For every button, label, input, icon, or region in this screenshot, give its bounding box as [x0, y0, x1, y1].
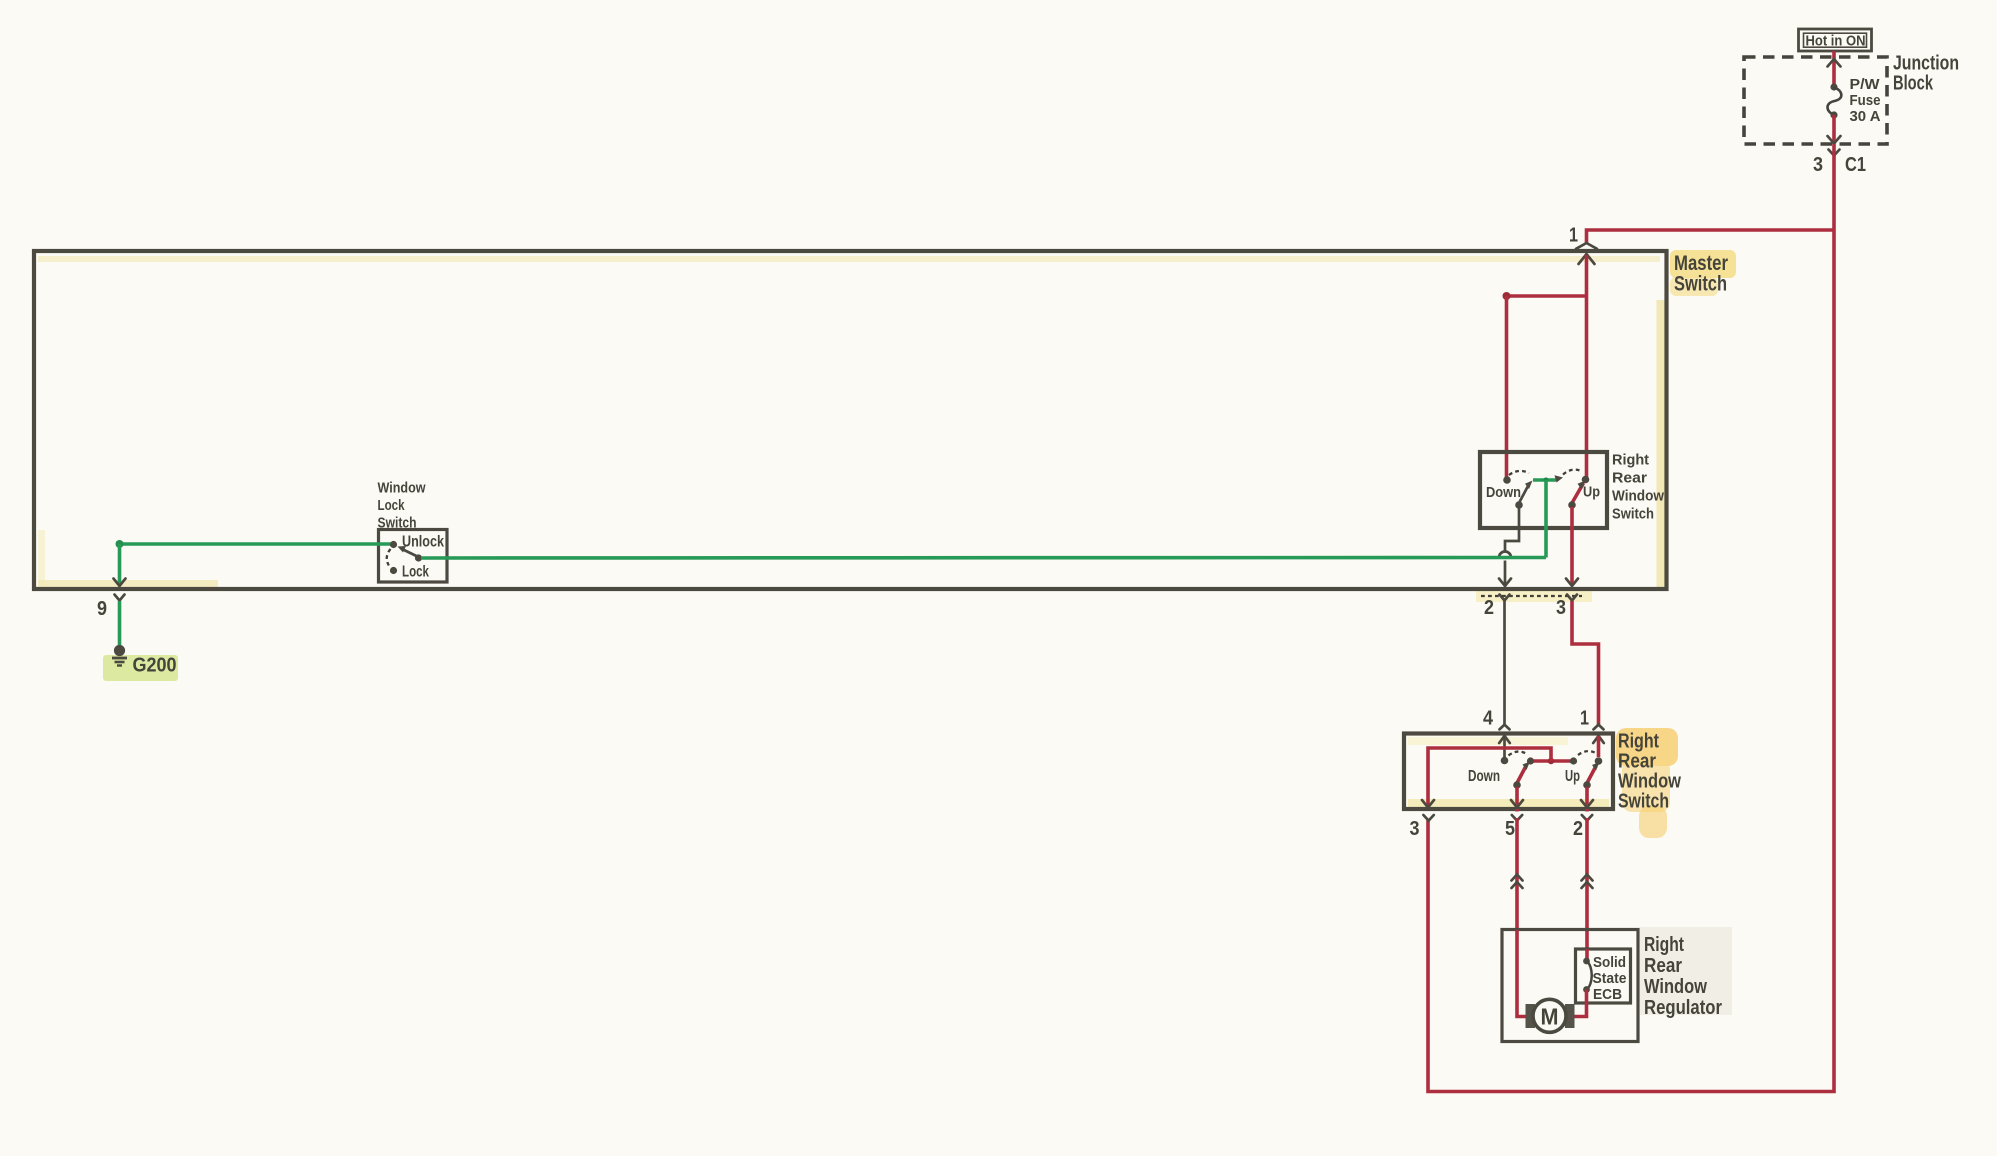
wire: dark from master pin 2 down to lower switch pin 4 — [1503, 601, 1506, 725]
wire: red from inner switch Up pivot down to pin 3 — [1570, 507, 1574, 585]
svg-text:Hot in ON: Hot in ON — [1806, 33, 1866, 49]
wire: red pin 2 down to regulator ECB — [1585, 818, 1589, 949]
wire: red from Up pivot to pin 2 — [1585, 787, 1589, 805]
svg-text:Block: Block — [1893, 73, 1934, 95]
highlight behind Master Switch label — [1670, 250, 1736, 278]
svg-text:Switch: Switch — [1612, 506, 1654, 523]
svg-text:Up: Up — [1565, 768, 1580, 785]
wire: red from fuse to junction block bottom — [1832, 115, 1836, 144]
wire: red pin 1 stub to Up fixed contact — [1597, 736, 1601, 757]
wire: red pin 5 down to regulator motor — [1515, 818, 1519, 930]
wire: green from ground junction to Unlock contact — [120, 542, 392, 546]
inner switch dashed throw arc (Up) — [1563, 470, 1582, 475]
master pin 2 connector chevron and label — [1500, 595, 1510, 601]
right rear window regulator box — [1502, 930, 1638, 1042]
dashed throw arc to Lock — [387, 549, 391, 567]
highlight master switch bottom-left inside edge — [38, 580, 218, 588]
lower switch dashed throw arc (Down) — [1509, 752, 1528, 756]
highlight below master pins 2 3 connector — [1476, 590, 1592, 602]
wire: red inside master switch from pin 1 down — [1585, 255, 1589, 479]
arrowhead down at lower switch bottom edge (pin 3) — [1422, 800, 1434, 808]
svg-text:3: 3 — [1813, 154, 1823, 176]
svg-text:M: M — [1541, 1004, 1559, 1030]
inner switch Up fixed contact — [1582, 476, 1590, 484]
wire: red feed inside lower switch from pin 3 across to common bar — [1428, 748, 1551, 806]
svg-text:Switch: Switch — [378, 516, 417, 532]
svg-text:2: 2 — [1484, 597, 1494, 619]
svg-text:Window: Window — [1612, 488, 1664, 505]
inline connector chevrons on pin 5 wire — [1512, 875, 1523, 881]
master pin 9 connector chevron and label — [115, 595, 125, 601]
arrowhead down at master bottom edge (pin 9) — [114, 579, 126, 587]
svg-text:ECB: ECB — [1593, 987, 1622, 1003]
lower switch common bar (red) with end contacts — [1531, 759, 1574, 763]
svg-text:2: 2 — [1573, 818, 1583, 840]
arrowhead up at junction block top — [1828, 59, 1841, 67]
master pin 3 connector chevron and label — [1567, 595, 1577, 601]
wire: long green from window lock switch common to inner switch — [421, 556, 1546, 560]
lower switch pin 3 connector chevron and label — [1423, 815, 1433, 821]
ECB breaker element — [1585, 949, 1589, 961]
svg-text:Down: Down — [1468, 768, 1500, 785]
connector C1 pin 3 chevron — [1829, 150, 1840, 156]
svg-text:Right: Right — [1612, 452, 1649, 469]
master switch box — [34, 251, 1667, 589]
window lock moving arm with arrowhead — [403, 550, 419, 558]
connector dashed line below master pins 2 and 3 — [1481, 595, 1582, 597]
svg-text:Regulator: Regulator — [1644, 997, 1722, 1019]
wire: green from common bar down out of inner switch — [1544, 480, 1548, 558]
svg-text:1: 1 — [1569, 225, 1578, 247]
motor M — [1526, 1004, 1536, 1028]
highlight lower switch top inside edge — [1408, 737, 1568, 745]
highlight behind lower Right Rear Window Switch label — [1616, 728, 1678, 766]
svg-text:Window: Window — [1618, 771, 1681, 793]
wire: red from master pin 3 jog right down to lower switch pin 1 — [1572, 601, 1599, 725]
inner switch common bar (green) — [1533, 478, 1556, 482]
svg-text:Lock: Lock — [378, 498, 406, 514]
svg-text:Window: Window — [378, 480, 427, 496]
svg-text:9: 9 — [97, 598, 107, 620]
inner switch Down fixed contact — [1503, 476, 1511, 484]
wire: dark from inner switch Down pivot, jog left, hop over green, to pin 2 — [1505, 507, 1519, 552]
lower switch pin 5 connector chevron and label — [1512, 815, 1522, 821]
highlight behind G200 — [103, 655, 178, 681]
wire: red from ECB to motor right terminal — [1574, 990, 1587, 1017]
svg-text:Junction: Junction — [1893, 53, 1959, 75]
svg-text:Up: Up — [1583, 484, 1600, 501]
wire: green down to master pin 9 — [116, 540, 124, 548]
svg-text:P/W: P/W — [1850, 77, 1880, 93]
lower switch dashed throw arc (Up) — [1578, 751, 1597, 755]
wire: green from pin 9 to ground — [118, 601, 122, 645]
svg-text:3: 3 — [1556, 597, 1566, 619]
svg-text:Down: Down — [1486, 484, 1521, 501]
highlight lower switch bottom inside edge — [1408, 799, 1609, 808]
svg-text:Solid: Solid — [1593, 955, 1626, 971]
grey backdrop behind regulator label — [1640, 927, 1732, 1015]
svg-text:Unlock: Unlock — [402, 534, 444, 551]
svg-text:4: 4 — [1483, 708, 1494, 730]
junction block (dashed box) — [1744, 57, 1887, 144]
wire: red inside regulator to motor left terminal — [1517, 930, 1527, 1017]
svg-text:5: 5 — [1505, 818, 1515, 840]
svg-text:1: 1 — [1580, 708, 1589, 730]
svg-text:Lock: Lock — [402, 564, 429, 581]
svg-text:G200: G200 — [133, 655, 177, 677]
wire: red from Down pivot to pin 5 — [1515, 787, 1519, 805]
inner switch dashed throw arc (Down) — [1509, 471, 1529, 475]
wire: red branch to master switch pin 1 — [1587, 230, 1835, 243]
highlight inside master switch right edge — [1657, 300, 1665, 587]
unlock contact — [390, 541, 397, 548]
svg-text:Rear: Rear — [1612, 470, 1647, 487]
wire: main red feed down right side, across bottom, up to lower switch pin 3 — [1428, 144, 1834, 1092]
window lock switch box — [379, 530, 448, 583]
svg-text:C1: C1 — [1845, 154, 1866, 176]
arrowhead down at master bottom edge (pin 3) — [1566, 579, 1578, 587]
arrowhead down at master bottom edge (pin 2) — [1499, 579, 1511, 587]
svg-text:30 A: 30 A — [1850, 109, 1882, 125]
svg-text:3: 3 — [1410, 818, 1420, 840]
inner right rear window switch box (in master switch) — [1480, 452, 1607, 528]
svg-text:Fuse: Fuse — [1850, 93, 1881, 109]
lower switch pin 2 connector chevron and label — [1582, 815, 1592, 821]
lower switch Up moving arm (red) with arrowhead — [1587, 766, 1596, 783]
svg-text:Rear: Rear — [1618, 751, 1656, 773]
lower switch Down moving arm (red) with arrowhead — [1517, 766, 1526, 783]
entry arrowheads inside lower switch top edge — [1499, 736, 1510, 743]
lock contact — [390, 567, 397, 574]
svg-text:Right: Right — [1618, 731, 1659, 753]
wire: dark pin 4 stub to Down fixed contact — [1503, 736, 1506, 757]
svg-text:Rear: Rear — [1644, 955, 1682, 977]
inline connector chevrons on pin 2 wire — [1582, 875, 1593, 881]
inner switch Up moving arm (red) with arrowhead — [1572, 483, 1584, 503]
svg-text:Right: Right — [1644, 934, 1684, 956]
svg-text:Switch: Switch — [1674, 273, 1727, 296]
svg-text:Window: Window — [1644, 976, 1707, 998]
arrowhead down at junction block bottom edge — [1828, 136, 1841, 144]
common contact — [415, 554, 422, 561]
solid state ECB box — [1576, 949, 1631, 1003]
svg-text:Switch: Switch — [1618, 791, 1669, 813]
wire: red feed from Hot in ON into junction block — [1832, 51, 1836, 87]
svg-text:State: State — [1593, 971, 1627, 987]
Hot in ON tag (double box) — [1799, 29, 1872, 51]
highlight band under master switch top edge — [38, 256, 1660, 262]
fuse F: P/W Fuse 30 A — [1830, 83, 1837, 90]
ground G200 — [114, 645, 125, 656]
inner switch Down moving arm with arrowhead — [1519, 486, 1528, 503]
right rear window switch box (at window) — [1404, 734, 1613, 810]
wire: red branch with junction dot to Down contact — [1507, 294, 1588, 298]
